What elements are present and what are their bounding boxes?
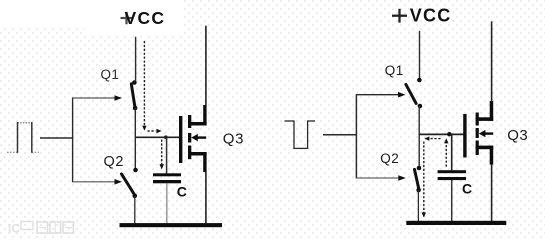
capacitor C2 plates bbox=[438, 170, 467, 180]
arrow to Q2 bbox=[73, 179, 122, 185]
switch Q1 (open) bbox=[406, 78, 422, 109]
svg-text:C: C bbox=[177, 184, 187, 200]
capacitor C1 plates bbox=[153, 173, 181, 183]
dashed discharge path: left arrow toward Q2 branch bbox=[424, 136, 441, 140]
body arrow bbox=[485, 132, 494, 134]
wire: input to branch bbox=[323, 134, 357, 136]
wire: Q1 to Q2 bbox=[418, 106, 420, 166]
wire: capacitor upper lead bbox=[166, 137, 168, 173]
wire: capacitor upper lead bbox=[451, 134, 453, 170]
svg-text:VCC: VCC bbox=[410, 6, 452, 26]
wire: input to branch bbox=[40, 137, 73, 139]
svg-text:Q1: Q1 bbox=[101, 67, 120, 82]
channel bar segments bbox=[188, 115, 191, 128]
wire: Q1 to Q2 bbox=[134, 108, 136, 168]
VCC rail bbox=[419, 31, 421, 78]
body arrow bbox=[197, 136, 207, 138]
wire: gate wire bbox=[135, 136, 179, 138]
svg-text:C: C bbox=[462, 181, 472, 197]
wire: source down to ground bbox=[491, 164, 493, 221]
svg-text:Q1: Q1 bbox=[385, 63, 404, 78]
svg-text:IC: IC bbox=[8, 222, 20, 236]
svg-text:VCC: VCC bbox=[125, 8, 166, 28]
source stub bbox=[476, 146, 494, 150]
svg-text:Q2: Q2 bbox=[104, 154, 125, 170]
wire: drain rail up bbox=[205, 26, 207, 106]
channel bar segments bbox=[476, 113, 479, 126]
wire: branch vertical bbox=[355, 94, 357, 178]
wire: capacitor lower lead bbox=[166, 183, 168, 223]
svg-text:Q3: Q3 bbox=[223, 131, 244, 148]
label +VCC bbox=[392, 15, 407, 17]
drain stub bbox=[476, 117, 494, 121]
input pulse waveform (negative pulse) bbox=[285, 120, 316, 149]
arrow to Q1 bbox=[73, 95, 122, 101]
ground rail (left) bbox=[120, 223, 223, 227]
VCC rail bbox=[135, 37, 137, 81]
gate bar bbox=[179, 116, 182, 163]
dashed discharge path: up arrow from capacitor bbox=[444, 138, 448, 167]
input pulse waveform (positive pulse) bbox=[7, 122, 39, 153]
wire: source down to ground bbox=[205, 172, 207, 224]
source stub bbox=[188, 152, 207, 156]
dashed current path into capacitor bbox=[160, 140, 164, 170]
arrow to Q2 bbox=[356, 175, 405, 181]
wire: capacitor lower lead bbox=[451, 180, 453, 221]
switch Q2 (closed) bbox=[415, 166, 422, 221]
ground rail (right) bbox=[406, 221, 506, 225]
gate bar bbox=[463, 114, 466, 158]
drain stub bbox=[188, 122, 207, 126]
node: gate junction bbox=[164, 135, 168, 139]
dashed current path (down from VCC) bbox=[142, 41, 161, 133]
label +VCC (overlapping plus) bbox=[121, 8, 166, 28]
switch Q2 (open) bbox=[122, 168, 138, 224]
wire: gate wire bbox=[419, 133, 463, 135]
watermark logo bbox=[8, 222, 74, 236]
MOSFET Q3 (right) bbox=[463, 101, 493, 165]
MOSFET Q3 (left) bbox=[179, 105, 207, 172]
arrow to Q1 bbox=[356, 92, 405, 98]
node: gate junction bbox=[447, 132, 451, 136]
wire: branch vertical bbox=[72, 98, 74, 183]
switch Q1 (closed) bbox=[131, 80, 137, 110]
wire: drain rail up bbox=[491, 21, 493, 101]
svg-text:Q2: Q2 bbox=[380, 151, 399, 166]
dashed discharge path: down to ground bbox=[422, 142, 426, 218]
svg-text:Q3: Q3 bbox=[507, 127, 528, 144]
